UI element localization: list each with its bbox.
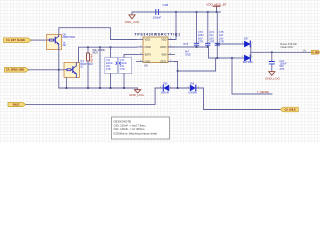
svg-text:MMDT3904: MMDT3904 (63, 36, 76, 39)
IC pin names (145, 38, 168, 64)
node junction (110.5,88) (110, 87, 112, 89)
ground GND_LOG at bus end (129, 88, 144, 97)
wire diode common vertical x253 (250, 44, 252, 58)
svg-text:2: 2 (160, 86, 161, 88)
svg-text:GND_LOG: GND_LOG (265, 77, 280, 81)
port CA_SENS_GND (mid-left) (5, 68, 29, 73)
wire IC pin7 row to caps (y47) (168, 46, 209, 48)
resistor R35 (87, 47, 94, 88)
label Q4 (80, 59, 93, 68)
svg-text:WDO: WDO (160, 45, 166, 49)
svg-text:1: 1 (252, 56, 253, 58)
svg-text:4k7: 4k7 (63, 44, 68, 47)
node junction (177.6,71) (177, 70, 179, 72)
node junction (232,58) (231, 57, 233, 59)
wire port2 to Q4 (29, 69, 64, 71)
node junction (177.6,88) (177, 87, 179, 89)
svg-text:CA_SENS_GND: CA_SENS_GND (6, 68, 24, 72)
wire Q4 bottom to bus (65, 78, 67, 89)
label Q5 (63, 32, 76, 47)
capacitor C72 box (119, 55, 132, 89)
svg-text:U5: U5 (144, 63, 148, 67)
svg-text:GND: GND (185, 54, 191, 57)
svg-text:inside MCU: inside MCU (280, 46, 293, 49)
node junction (66.4,88) (66, 87, 68, 89)
wire gnd stub at bus left end (131, 12, 133, 15)
svg-text:X7R: X7R (209, 39, 214, 43)
capacitor C75 (x217.3) (215, 12, 224, 58)
IC pin stubs right (168, 40, 175, 62)
wire bus to IC pin8 (x176 down) (168, 12, 176, 40)
wire T_SENSE branch (232, 58, 272, 94)
svg-text:TPS3430WDRCTT/Q1: TPS3430WDRCTT/Q1 (135, 33, 181, 37)
diode D96 (right, points right) (179, 82, 204, 94)
node junction (88,88) (87, 87, 89, 89)
node junction (88,47.2) (87, 46, 89, 48)
power port VDD_MCU_BT (206, 2, 227, 12)
node junction on bus x176 (175, 11, 177, 13)
wire IC pin5 gnd down (175, 62, 178, 89)
wire corner (208.5,47)-(208.5,58)-(232,58) (209, 47, 233, 58)
node junction (207.8,47) (207, 46, 209, 48)
svg-text:WDI: WDI (161, 53, 166, 57)
diode D97 (upper BAT54W) (244, 37, 251, 47)
node junction (217.3,44) (216, 43, 218, 45)
svg-text:C98: C98 (163, 3, 169, 7)
node junction on bus x216.6 (216, 11, 218, 13)
svg-text:X7R: X7R (120, 68, 125, 71)
diode D95 (left, points left) (155, 82, 177, 94)
svg-text:X7R: X7R (280, 68, 285, 71)
svg-text:CA_SHLD: CA_SHLD (284, 109, 295, 112)
wire top bus VDD rail (132, 11, 221, 13)
svg-text:3: 3 (242, 42, 243, 44)
capacitor C98 (series on rail) (155, 9, 160, 14)
diode D98 (lower BAT54W) (243, 55, 253, 64)
node junction (100,47.2) (99, 46, 101, 48)
svg-text:D95: D95 (163, 82, 168, 85)
IC U5 watchdog body (143, 37, 168, 62)
svg-text:VDD: VDD (145, 38, 151, 42)
pin numbers diodes bottom (160, 86, 199, 88)
wire Q4 top pin to WDI row (79, 47, 137, 62)
svg-text:1: 1 (170, 86, 171, 88)
wire D96 to port4 (204, 88, 281, 110)
svg-text:BAT54W: BAT54W (243, 61, 253, 64)
transistor Q5 box (47, 35, 62, 50)
svg-text:VDD_MCU_BT: VDD_MCU_BT (206, 2, 227, 6)
wire Q5 top to IC pin1 (route) (59, 28, 137, 40)
svg-text:1N4148: 1N4148 (161, 91, 170, 94)
wire gnd bus bottom (59, 87, 138, 89)
svg-text:1k: 1k (80, 66, 83, 69)
wire lower diode feed (y58) (232, 57, 244, 59)
pin numbers diodes upper (242, 42, 253, 58)
note box DESIGN NOTE (112, 117, 170, 139)
node junction (100,88) (99, 87, 101, 89)
svg-text:A_WD: A_WD (312, 51, 319, 54)
capacitor C74 (x207.8) (206, 12, 215, 47)
capacitor C91 (269, 52, 287, 71)
node junction (110.5,47.2) (110, 46, 112, 48)
port SHLD (bottom-left) (8, 103, 26, 107)
svg-text:D96: D96 (190, 82, 195, 85)
svg-text:C91: 100nF -> td: 300ms: C91: 100nF -> td: 300ms (114, 127, 146, 131)
svg-text:CA_EXT_SLAVE: CA_EXT_SLAVE (6, 38, 25, 42)
svg-text:R76: R76 (184, 43, 189, 46)
label Route note (280, 43, 297, 49)
svg-text:SHLD: SHLD (13, 103, 20, 107)
port A_WD (right, output) (311, 50, 320, 54)
svg-text:GND_LOG: GND_LOG (125, 20, 140, 24)
svg-text:100nF: 100nF (153, 15, 162, 19)
wire port3 long run (26, 88, 155, 105)
svg-text:SET1: SET1 (160, 59, 167, 63)
capacitor C71 box (105, 47, 118, 88)
svg-text:2: 2 (242, 56, 243, 58)
ground GND_LOG top-left (125, 15, 140, 24)
svg-text:X7R: X7R (198, 39, 203, 43)
node junction (124,88) (123, 87, 125, 89)
svg-text:T_SENSE: T_SENSE (257, 90, 269, 94)
svg-text:1N4148: 1N4148 (188, 91, 197, 94)
wire port1 to Q5 (32, 39, 47, 41)
wire diode output to port (y52) (251, 51, 312, 53)
svg-text:X7R: X7R (106, 68, 111, 71)
wire upper diode feed (y44) (219, 43, 245, 45)
wire C72 top to IC pin3 (124, 54, 137, 56)
svg-text:SET0: SET0 (145, 53, 152, 57)
wire branch (177.6,71)-(215.6,71)-(215.6,58) (178, 58, 216, 71)
node junction (217.3,58) (216, 57, 218, 59)
port CA_EXT_SLAVE (top-left) (4, 38, 32, 43)
IC pin numbers (140, 38, 172, 62)
svg-text:R35 4k7: R35 4k7 (91, 53, 94, 63)
node junction (196.5,47) (196, 46, 198, 48)
node junction (58.8,69.75) (58, 69, 60, 71)
label 4k7 DNP near pin7 wire (184, 43, 191, 56)
capacitor C73 (x196.5) (194, 12, 204, 47)
wire Q5 bottom down to gnd bus corner (58, 50, 60, 89)
svg-text:1: 1 (252, 42, 253, 44)
svg-text:VDD: VDD (161, 38, 167, 42)
node junction on bus x196.5 (196, 11, 198, 13)
svg-text:X7R: X7R (219, 39, 224, 43)
ground GND_LOG under C91 (265, 72, 280, 81)
svg-text:D97: D97 (244, 37, 249, 40)
transistor Q4 box (64, 63, 80, 78)
IC pin stubs left (137, 40, 144, 62)
node junction (272.7,52) (271, 51, 273, 53)
svg-text:GND: GND (145, 59, 151, 63)
wire x100 row to bus (99, 47, 101, 88)
port A_GND (bottom right) (280, 107, 298, 112)
svg-text:K235Mount: Watchdog feature di: K235Mount: Watchdog feature disab. (114, 131, 159, 135)
node junction on bus x207.8 (207, 11, 209, 13)
svg-text:CWD: CWD (145, 45, 151, 49)
svg-text:GND_LOG: GND_LOG (129, 93, 144, 97)
